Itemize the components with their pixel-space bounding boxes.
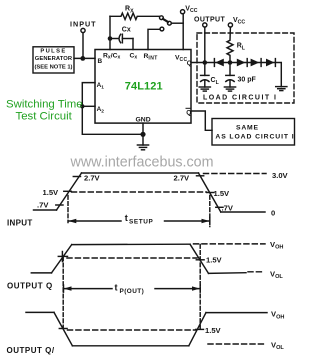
svg-text:OUTPUT Q/: OUTPUT Q/ (7, 346, 55, 355)
wire Q output rail (191, 63, 281, 87)
input low line right (221, 211, 265, 213)
t_P(OUT) arrow (64, 283, 201, 296)
wire pulse generator to IC pin B (74, 57, 95, 59)
wire A2 (82, 105, 95, 107)
capacitor CL (201, 63, 220, 88)
1.5V dashed mid Qbar (68, 329, 197, 331)
tick vertical Q rise (61, 252, 63, 262)
wire A1 (82, 83, 95, 107)
switch S1 (160, 16, 172, 31)
same-as-load box (212, 119, 295, 146)
node GND junction (140, 132, 145, 137)
wire Q-bar to same box (191, 111, 212, 130)
capacitor Cx (110, 27, 133, 43)
svg-text:0: 0 (271, 209, 275, 218)
svg-text:3.0V: 3.0V (272, 171, 289, 180)
input rising edge (57, 173, 82, 210)
svg-text:t: t (125, 213, 128, 223)
svg-text:LOAD CIRCUIT I: LOAD CIRCUIT I (203, 95, 277, 102)
wire GND pin down (142, 123, 144, 134)
svg-text:VOH: VOH (270, 240, 283, 251)
dashed vertical input rise (67, 196, 69, 223)
VOL dashed Qbar (208, 343, 265, 345)
Qbar rising edge (189, 313, 206, 346)
svg-text:1.5V: 1.5V (214, 189, 231, 198)
ground rail right (276, 87, 287, 91)
svg-text:OUTPUT: OUTPUT (194, 16, 225, 23)
node A2 junction (80, 104, 84, 108)
dashed vertical right t_p (199, 245, 201, 330)
pulse generator box (33, 47, 74, 73)
svg-text:VOL: VOL (270, 269, 283, 280)
diode D2 (237, 59, 247, 67)
input falling edge (199, 173, 221, 212)
t_SETUP arrow (68, 213, 210, 226)
svg-text:VOL: VOL (271, 340, 284, 351)
svg-text:1.5V: 1.5V (206, 256, 223, 265)
node Cx junction (108, 36, 113, 41)
tick 1.5V Qbar fall (59, 328, 67, 330)
svg-text:Test Circuit: Test Circuit (16, 111, 73, 123)
svg-text:1.5V: 1.5V (205, 326, 222, 335)
input low line left (34, 209, 57, 211)
tick 1.5V Qbar rise (196, 328, 204, 330)
tick 2.7V rise (73, 176, 80, 178)
tick 1.5V fall (207, 192, 214, 194)
svg-text:A2: A2 (97, 106, 105, 115)
svg-text:30 pF: 30 pF (238, 76, 257, 83)
svg-text:INPUT: INPUT (7, 218, 33, 227)
diode D3 (251, 59, 262, 67)
tick .7V rise (56, 204, 63, 206)
caption Switching Time Test Circuit (6, 98, 83, 122)
svg-text:.7V: .7V (37, 201, 49, 210)
svg-text:OUTPUT Q: OUTPUT Q (7, 282, 53, 291)
svg-text:2.7V: 2.7V (174, 173, 191, 182)
svg-text:GENERATOR: GENERATOR (35, 56, 73, 62)
svg-text:SAME: SAME (236, 124, 259, 131)
Q rising edge (52, 245, 72, 273)
tick .7V fall (216, 206, 223, 208)
load circuit I dashed box (197, 33, 294, 103)
svg-text:VCC: VCC (185, 5, 197, 14)
svg-text:74L121: 74L121 (125, 81, 163, 93)
svg-text:(SEE NOTE 1): (SEE NOTE 1) (34, 64, 72, 70)
1.5V dashed level (72, 191, 207, 193)
tick 1.5V Q rise (58, 255, 67, 257)
wire Vcc riser (182, 14, 184, 50)
diode D1 (214, 59, 223, 67)
svg-text:RINT: RINT (144, 53, 158, 62)
input top line (82, 172, 199, 174)
IC U1 74L121 (95, 50, 192, 124)
svg-text:Cx: Cx (130, 53, 138, 61)
svg-text:VOH: VOH (271, 310, 284, 321)
tick 1.5V rise (64, 190, 72, 192)
wire R_INT pin to switch (148, 29, 160, 49)
svg-text:AS LOAD CIRCUIT I: AS LOAD CIRCUIT I (215, 133, 294, 140)
ground 30pF (224, 87, 235, 91)
Vcc terminal (181, 10, 185, 14)
resistor RL (227, 27, 246, 62)
dashed vertical left t_p (62, 257, 64, 328)
svg-text:1.5V: 1.5V (43, 188, 60, 197)
wire Rx/Cx pin riser (109, 16, 111, 49)
Q falling edge (190, 244, 209, 273)
svg-text:CL: CL (211, 77, 220, 86)
wire A2 node to ground rail (82, 106, 143, 134)
Qbar falling edge (54, 312, 72, 345)
svg-text:2.7V: 2.7V (84, 173, 101, 182)
tick 2.7V fall (197, 175, 204, 177)
Qbar high line right (206, 312, 267, 314)
svg-text:VCC: VCC (175, 55, 187, 64)
wire Cx to IC pin (132, 39, 134, 50)
capacitor 30pF (226, 63, 257, 88)
svg-text:Rx/Cx: Rx/Cx (103, 53, 121, 61)
Q low line left (31, 272, 51, 274)
Q low line right (209, 272, 247, 275)
svg-text:www.interfacebus.com: www.interfacebus.com (70, 155, 214, 171)
svg-text:Q: Q (187, 60, 192, 67)
VOH dashed Q (194, 243, 266, 245)
input terminal (81, 28, 85, 32)
resistor Rx (110, 6, 159, 20)
svg-text:RL: RL (237, 43, 246, 52)
svg-text:t: t (115, 283, 118, 293)
svg-text:P(OUT): P(OUT) (120, 288, 145, 295)
svg-text:SETUP: SETUP (129, 218, 153, 225)
Q top line (72, 243, 190, 245)
diode D4 (266, 59, 275, 67)
wire output terminal to rail (204, 27, 206, 62)
svg-text:VCC: VCC (233, 17, 245, 26)
node junction B (80, 56, 85, 61)
svg-text:PULSE: PULSE (40, 49, 66, 55)
tick 1.5V Q fall (196, 259, 204, 261)
svg-text:RX: RX (125, 6, 134, 15)
ground (137, 134, 148, 150)
svg-text:Cx: Cx (122, 27, 131, 34)
dashed vertical input fall (209, 196, 211, 227)
Vcc load terminal (228, 23, 232, 27)
wire input terminal to B node (82, 33, 84, 59)
Qbar high line left (26, 311, 54, 313)
node output/CL junction (203, 60, 208, 65)
svg-text:INPUT: INPUT (70, 20, 97, 29)
3.0V dashed level (204, 173, 267, 175)
node RL/30pF junction (228, 60, 233, 65)
ground CL (199, 87, 210, 91)
svg-text:Switching Time: Switching Time (6, 98, 83, 110)
svg-text:A1: A1 (97, 82, 105, 91)
svg-text:B: B (98, 58, 103, 65)
output terminal (203, 23, 207, 27)
1.5V dashed mid Q (67, 257, 197, 259)
Qbar low line (72, 345, 188, 347)
wire switch common to Vcc line (171, 22, 183, 24)
